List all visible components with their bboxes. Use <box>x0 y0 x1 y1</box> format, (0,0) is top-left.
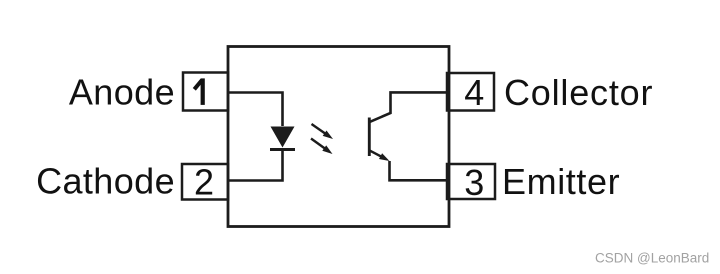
svg-text:Collector: Collector <box>504 72 653 113</box>
svg-text:Anode: Anode <box>69 72 175 113</box>
light arrow 1 head <box>323 131 333 140</box>
light arrow 2 shaft <box>311 139 328 151</box>
pin box 3 <box>447 164 495 199</box>
transistor Q1 emitter diagonal <box>370 151 384 158</box>
transistor Q1 base bar <box>368 118 371 157</box>
wire collector: transistor to pin 4 <box>370 92 449 121</box>
light arrow 2 head <box>322 145 332 154</box>
wire cathode: LED cathode to pin 2 <box>228 150 283 181</box>
pin box 1 <box>183 73 228 111</box>
svg-text:Cathode: Cathode <box>36 161 175 202</box>
svg-text:4: 4 <box>464 72 484 113</box>
pin 1 number (custom Arial-style glyph) <box>194 78 205 105</box>
svg-text:Emitter: Emitter <box>502 161 620 202</box>
svg-text:2: 2 <box>194 162 214 203</box>
light arrow 1 shaft <box>312 124 329 136</box>
svg-text:3: 3 <box>464 162 484 203</box>
wire anode: pin 1 to LED anode <box>228 93 283 127</box>
LED D1 triangle <box>271 127 295 148</box>
svg-text:CSDN @LeonBard: CSDN @LeonBard <box>595 251 709 266</box>
LED D1 cathode bar <box>270 148 295 151</box>
pin box 2 <box>182 164 228 200</box>
package outline <box>228 47 449 227</box>
wire emitter: transistor to pin 3 <box>390 161 450 180</box>
transistor Q1 emitter arrowhead <box>379 153 390 161</box>
pin box 4 <box>447 73 494 111</box>
